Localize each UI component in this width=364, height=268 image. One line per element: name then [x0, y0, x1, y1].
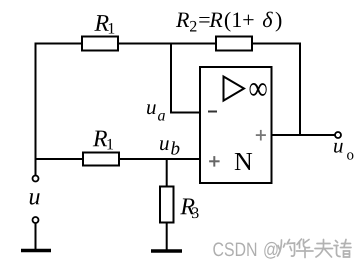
- op-amp N box: [200, 67, 272, 183]
- label R3: sub 3 endx=199.2: [192, 207, 199, 218]
- op-amp non-inverting input plus sign: [209, 156, 220, 167]
- wire top horizontal right segment: [252, 43, 301, 45]
- wire R3 to ground: [166, 223, 168, 251]
- label R1 bottom: R endx=107.6: [93, 131, 107, 147]
- watermark char zhu: [334, 240, 351, 258]
- wire ub horizontal right segment: [119, 158, 201, 160]
- watermark CSDN endx=257.5: [213, 242, 256, 256]
- op-amp N label endx=252.8: [235, 153, 252, 170]
- resistor R3 box: [160, 187, 174, 223]
- terminal u upper circle: [33, 176, 39, 182]
- wire ua to inverting input: [170, 112, 201, 114]
- wire top horizontal left segment: [35, 43, 83, 45]
- watermark char fu: [315, 240, 333, 258]
- watermark char hua: [297, 239, 314, 258]
- wire right vertical feedback: [299, 43, 301, 137]
- wire R3 branch down: [166, 158, 168, 187]
- label u endx=40.5: [30, 193, 40, 204]
- resistor R2 box: [216, 37, 252, 51]
- wire ub horizontal left segment: [35, 158, 84, 160]
- wire output: [272, 134, 336, 136]
- label R3: R endx=195.1: [180, 198, 194, 214]
- terminal u lower circle: [33, 217, 39, 223]
- wire lower terminal to ground: [35, 223, 37, 250]
- label ub: u endx=169.5: [160, 140, 169, 150]
- resistor R1 top box: [82, 37, 118, 51]
- watermark @ endx=279.0: [264, 242, 277, 259]
- watermark char zhuo: [278, 240, 295, 257]
- label uo: sub o endx=354.0: [347, 152, 353, 159]
- label uo: u endx=343.5: [334, 143, 343, 153]
- op-amp triangle: [224, 77, 245, 101]
- wire left vertical: [35, 43, 37, 176]
- terminal uo circle: [335, 132, 341, 138]
- op-amp output plus sign: [256, 130, 266, 141]
- label ua: sub a endx=165.5: [158, 113, 165, 121]
- label ua: u endx=156.5: [147, 104, 156, 114]
- wire branch down to node ua: [170, 43, 172, 114]
- resistor R1 bottom box: [83, 153, 119, 166]
- label R1 bottom: sub 1 endx=114.0: [107, 139, 113, 150]
- label R1 top: sub 1 endx=115.3: [109, 23, 115, 34]
- wire top horizontal middle segment: [118, 43, 216, 45]
- label R2 equation: [176, 12, 281, 32]
- ground symbol u: [21, 249, 51, 253]
- ground symbol R3: [151, 249, 182, 253]
- label R1 top: R endx=109.2: [94, 15, 108, 31]
- op-amp infinity symbol endx=267.7: [250, 83, 267, 96]
- op-amp inverting input minus sign: [208, 111, 217, 113]
- label ub: sub b endx=180.0: [171, 141, 179, 154]
